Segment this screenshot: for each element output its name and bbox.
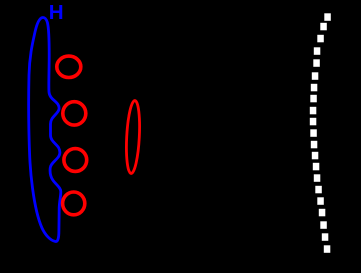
red ellipse [125, 100, 141, 174]
red circle 1 [57, 56, 81, 77]
red circle 4 [63, 192, 85, 215]
blue loop outline [29, 18, 61, 242]
white dashed curve [310, 13, 331, 253]
red circle 2 [63, 102, 86, 125]
red circle 3 [64, 149, 87, 172]
svg-text:H: H [49, 1, 64, 24]
